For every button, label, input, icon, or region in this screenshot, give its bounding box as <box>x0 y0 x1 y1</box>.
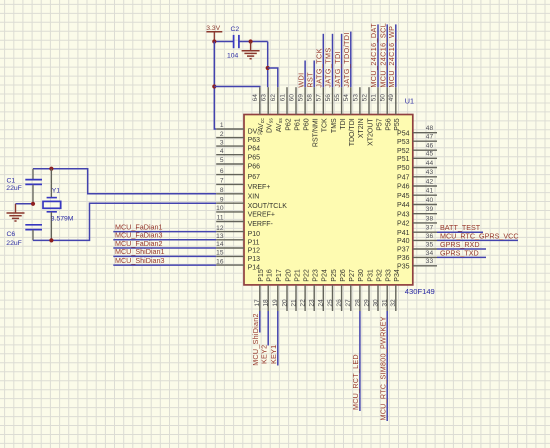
svg-text:63: 63 <box>261 94 268 102</box>
U1 pin 23 (P23) with number <box>309 269 320 311</box>
wire net MCU_ShiDian2 on pin 17 <box>259 311 261 333</box>
capacitor C6 <box>6 225 42 247</box>
U1 pin 59 (P60) with number <box>298 87 311 131</box>
svg-text:P51: P51 <box>397 156 410 163</box>
U1 pin 38 (P42) with number <box>397 215 437 227</box>
junction node B at crystal bottom <box>49 238 53 242</box>
svg-text:31: 31 <box>382 299 389 307</box>
svg-text:8: 8 <box>220 187 224 194</box>
svg-text:42: 42 <box>426 178 434 185</box>
svg-text:2: 2 <box>220 131 224 138</box>
svg-text:P65: P65 <box>248 154 261 161</box>
svg-text:62: 62 <box>270 94 277 102</box>
wire net GPRS_RXD on pin 35 <box>437 248 486 250</box>
wire net MCU_RTC_GPRS_VCC on pin 36 <box>437 239 518 241</box>
U1 pin 35 (P37) with number <box>397 241 437 253</box>
svg-text:AVss: AVss <box>276 118 284 132</box>
svg-text:10: 10 <box>216 205 224 212</box>
junction on DVss wire <box>266 66 270 70</box>
wire net MCU_FaDian3 to pin <box>113 239 216 241</box>
power symbol 3.3V <box>206 25 222 41</box>
svg-text:36: 36 <box>426 233 434 240</box>
svg-text:P10: P10 <box>248 231 261 238</box>
svg-text:P44: P44 <box>397 202 410 209</box>
svg-text:XIN: XIN <box>248 193 260 200</box>
junction at C2/ground node <box>249 39 253 43</box>
svg-text:P32: P32 <box>376 269 383 282</box>
U1 pin 25 (P25) with number <box>327 269 338 311</box>
U1 pin 36 (P40) with number <box>397 233 437 245</box>
svg-text:P56: P56 <box>386 118 393 131</box>
U1 pin 26 (P26) with number <box>336 269 347 311</box>
U1 pin 28 (P30) with number <box>354 269 365 311</box>
svg-text:P11: P11 <box>248 239 260 246</box>
wire net GPRS_TXD on pin 34 <box>437 256 486 258</box>
U1 pin 46 (P52) with number <box>397 143 437 155</box>
svg-text:P12: P12 <box>248 248 261 255</box>
svg-text:P46: P46 <box>397 184 410 191</box>
U1 pin 1 (DVcc) with number <box>216 122 263 136</box>
svg-text:XT2OUT: XT2OUT <box>367 118 374 146</box>
svg-text:61: 61 <box>279 94 286 102</box>
wire net MCU_24C16_SCL on pin 50 <box>386 24 388 87</box>
wire net MCU_ShiDian1 to pin <box>113 255 216 257</box>
svg-text:26: 26 <box>336 299 343 307</box>
U1 pin 62 (AVss) with number <box>270 87 284 132</box>
svg-text:MCU_ShiDian3: MCU_ShiDian3 <box>115 256 165 265</box>
wire branch to pin 62 AVss <box>268 68 278 87</box>
svg-text:P66: P66 <box>248 164 261 171</box>
U1 pin 7 (VREF+) with number <box>216 178 270 191</box>
svg-text:XOUT/TCLK: XOUT/TCLK <box>248 203 288 210</box>
U1 pin 21 (P21) with number <box>290 269 301 311</box>
svg-text:15: 15 <box>216 250 224 257</box>
U1 pin 4 (P65) with number <box>216 148 260 161</box>
svg-text:49: 49 <box>388 94 395 102</box>
svg-text:9: 9 <box>220 196 224 203</box>
wire net JATG_TDI on pin 55 <box>341 34 343 87</box>
U1 pin 18 (P16) with number <box>263 269 274 311</box>
svg-text:MCU_RCT_LED: MCU_RCT_LED <box>351 354 360 410</box>
svg-text:P53: P53 <box>397 139 410 146</box>
svg-text:40: 40 <box>426 197 434 204</box>
svg-text:C1: C1 <box>7 177 16 184</box>
svg-text:MCU_24C16_WP: MCU_24C16_WP <box>387 26 396 88</box>
U1 pin 16 (P14) with number <box>216 258 260 271</box>
svg-text:P17: P17 <box>276 269 283 282</box>
svg-text:57: 57 <box>316 94 323 102</box>
wire net MCU_FaDian2 to pin <box>113 247 216 249</box>
svg-text:32: 32 <box>390 299 397 307</box>
svg-text:TDI: TDI <box>340 118 347 129</box>
junction node A at crystal top <box>49 167 53 171</box>
svg-text:41: 41 <box>426 188 434 195</box>
junction at 3.3V rail <box>212 39 216 43</box>
U1 pin 57 (TCK) with number <box>316 87 329 132</box>
svg-text:TMS: TMS <box>331 118 338 133</box>
svg-text:P61: P61 <box>294 118 301 131</box>
svg-text:P34: P34 <box>394 269 401 282</box>
wire net MCU_RTC_SIM800_PWRKEY on pin 31 <box>386 311 388 421</box>
svg-text:GPRS_TXD: GPRS_TXD <box>440 248 479 257</box>
wire net MCU_24C16_DAT on pin 51 <box>377 24 379 87</box>
U1 pin 43 (P47) with number <box>397 169 437 181</box>
svg-text:P52: P52 <box>397 148 410 155</box>
svg-text:5: 5 <box>220 157 224 164</box>
svg-text:P33: P33 <box>386 269 393 282</box>
wire branch to pin 64 AVcc <box>214 86 259 89</box>
svg-text:3.3V: 3.3V <box>206 25 220 32</box>
svg-text:P67: P67 <box>248 174 261 181</box>
U1 pin 52 (XT2OUT) with number <box>361 87 374 146</box>
svg-text:P45: P45 <box>397 193 410 200</box>
svg-text:27: 27 <box>345 299 352 307</box>
U1 pin 10 (VEREF+) with number <box>216 205 275 218</box>
svg-text:MCU_24C16_DAT: MCU_24C16_DAT <box>369 23 378 88</box>
svg-text:MCU_RTC_SIM800_PWRKEY: MCU_RTC_SIM800_PWRKEY <box>378 316 387 420</box>
svg-text:TCK: TCK <box>322 118 329 132</box>
U1 pin 3 (P64) with number <box>216 139 260 152</box>
svg-text:54: 54 <box>343 94 350 102</box>
U1 pin 31 (P33) with number <box>382 269 393 311</box>
ground symbol at C2 <box>242 42 260 59</box>
svg-text:43: 43 <box>426 169 434 176</box>
svg-text:C2: C2 <box>231 26 240 33</box>
U1 pin 5 (P66) with number <box>216 157 260 170</box>
wire net WDI on pin 59 <box>304 61 306 88</box>
wire to left ground <box>16 203 34 205</box>
svg-text:48: 48 <box>426 125 434 132</box>
svg-text:55: 55 <box>334 94 341 102</box>
wire node A: C1/Y1 top to XIN pin 8 <box>33 169 216 194</box>
svg-text:P25: P25 <box>331 269 338 282</box>
svg-text:22: 22 <box>300 299 307 307</box>
U1 pin 27 (P27) with number <box>345 269 356 311</box>
svg-text:45: 45 <box>426 151 434 158</box>
svg-text:P26: P26 <box>340 269 347 282</box>
svg-text:P23: P23 <box>313 269 320 282</box>
svg-text:3.579M: 3.579M <box>51 216 74 223</box>
svg-text:16: 16 <box>216 258 224 265</box>
svg-text:P50: P50 <box>397 165 410 172</box>
svg-text:P30: P30 <box>358 269 365 282</box>
svg-text:22uF: 22uF <box>6 240 21 247</box>
svg-text:104: 104 <box>227 53 239 60</box>
U1 pin 61 (P62) with number <box>279 87 292 131</box>
wire ground node down to pin 63 DVss <box>267 42 269 88</box>
svg-text:P36: P36 <box>397 255 410 262</box>
U1 pin 39 (P43) with number <box>397 206 437 218</box>
U1 pin 24 (P24) with number <box>318 269 329 311</box>
svg-text:P57: P57 <box>376 118 383 131</box>
U1 pin 19 (P17) with number <box>272 269 283 311</box>
svg-text:P15: P15 <box>258 269 265 282</box>
svg-text:35: 35 <box>426 241 434 248</box>
U1 pin 58 (RST/NMI) with number <box>307 87 320 147</box>
svg-text:20: 20 <box>281 299 288 307</box>
svg-text:52: 52 <box>361 94 368 102</box>
U1 pin 20 (P20) with number <box>281 269 292 311</box>
U1 pin 53 (XT2IN) with number <box>352 87 365 138</box>
svg-text:430F149: 430F149 <box>405 287 435 296</box>
svg-text:53: 53 <box>352 94 359 102</box>
svg-text:JATG_TCK: JATG_TCK <box>315 48 324 87</box>
U1 pin 47 (P53) with number <box>397 134 437 146</box>
U1 pin 17 (P15) with number <box>254 269 265 311</box>
svg-text:47: 47 <box>426 134 434 141</box>
svg-text:34: 34 <box>426 250 434 257</box>
svg-text:KEY1: KEY1 <box>269 345 278 364</box>
wire net KEY2 on pin 18 <box>267 311 269 346</box>
svg-text:AVcc: AVcc <box>258 118 266 132</box>
svg-text:37: 37 <box>426 225 434 232</box>
svg-text:19: 19 <box>272 299 279 307</box>
capacitor C1 <box>6 169 42 204</box>
svg-text:XT2IN: XT2IN <box>358 118 365 138</box>
wire net BATT_TEST on pin 37 <box>437 231 483 233</box>
crystal Y1 <box>43 169 74 241</box>
svg-text:18: 18 <box>263 299 270 307</box>
svg-text:28: 28 <box>354 299 361 307</box>
U1 pin 55 (TDI) with number <box>334 87 347 129</box>
svg-text:13: 13 <box>216 233 224 240</box>
svg-text:P27: P27 <box>349 269 356 282</box>
U1 pin 14 (P12) with number <box>216 241 260 254</box>
U1 pin 44 (P50) with number <box>397 160 437 172</box>
U1 pin 22 (P22) with number <box>300 269 311 311</box>
svg-text:P62: P62 <box>285 118 292 131</box>
svg-text:P37: P37 <box>397 247 410 254</box>
svg-text:59: 59 <box>298 94 305 102</box>
U1 pin 34 (P36) with number <box>397 250 437 262</box>
U1 pin 50 (P56) with number <box>380 87 393 131</box>
svg-text:7: 7 <box>220 178 224 185</box>
svg-text:P16: P16 <box>267 269 274 282</box>
U1 pin 40 (P44) with number <box>397 197 437 209</box>
U1 pin 64 (AVcc) with number <box>252 87 266 132</box>
wire net JATG_TCK on pin 57 <box>322 34 324 87</box>
svg-text:P63: P63 <box>248 137 261 144</box>
wire net MCU_24C16_WP on pin 49 <box>395 24 397 87</box>
svg-text:24: 24 <box>318 299 325 307</box>
svg-text:JATG_TMS: JATG_TMS <box>324 47 333 87</box>
U1 pin 29 (P31) with number <box>363 269 374 311</box>
svg-text:14: 14 <box>216 241 224 248</box>
svg-text:58: 58 <box>307 94 314 102</box>
svg-text:6: 6 <box>220 168 224 175</box>
ground symbol left <box>7 204 25 221</box>
svg-text:P24: P24 <box>322 269 329 282</box>
junction on 3.3V vertical <box>212 84 216 88</box>
U1 pin 15 (P13) with number <box>216 250 260 263</box>
svg-text:U1: U1 <box>405 96 414 105</box>
svg-text:P22: P22 <box>303 269 310 282</box>
svg-text:TDO/TDI: TDO/TDI <box>349 118 356 146</box>
svg-text:P64: P64 <box>248 146 261 153</box>
svg-text:P20: P20 <box>285 269 292 282</box>
svg-text:29: 29 <box>363 299 370 307</box>
capacitor C2 <box>227 26 239 59</box>
U1 pin 13 (P11) with number <box>216 233 259 246</box>
svg-text:33: 33 <box>426 258 434 265</box>
svg-text:VEREF+: VEREF+ <box>248 212 275 219</box>
svg-text:P60: P60 <box>303 118 310 131</box>
U1 pin 2 (P63) with number <box>216 131 260 144</box>
wire net MCU_FaDian1 to pin <box>113 231 216 233</box>
svg-text:KEY2: KEY2 <box>259 345 268 364</box>
svg-text:4: 4 <box>220 148 224 155</box>
svg-text:17: 17 <box>254 299 261 307</box>
U1 pin 32 (P34) with number <box>390 269 401 311</box>
svg-text:JATG_TDI: JATG_TDI <box>333 51 342 88</box>
svg-text:MCU_ShiDian1: MCU_ShiDian1 <box>115 247 165 256</box>
wire net JATG_TMS on pin 56 <box>332 34 334 87</box>
U1 pin 9 (XOUT/TCLK) with number <box>216 196 287 209</box>
U1 pin 49 (P55) with number <box>388 87 401 131</box>
U1 pin 51 (P57) with number <box>370 87 383 131</box>
svg-text:39: 39 <box>426 206 434 213</box>
svg-text:21: 21 <box>290 299 297 307</box>
U1 pin 48 (P54) with number <box>397 125 437 137</box>
U1 pin 11 (VERFF-) with number <box>216 215 273 228</box>
U1 pin 45 (P51) with number <box>397 151 437 163</box>
U1 pin 8 (XIN) with number <box>216 187 259 200</box>
svg-text:56: 56 <box>325 94 332 102</box>
svg-text:P55: P55 <box>394 118 401 131</box>
wire C2 right plate to ground node <box>239 41 268 43</box>
svg-text:RST/NMI: RST/NMI <box>313 118 320 147</box>
svg-text:11: 11 <box>217 215 224 222</box>
U1 pin 63 (DVss) with number <box>261 87 275 133</box>
U1 pin 42 (P46) with number <box>397 178 437 190</box>
svg-text:WDI: WDI <box>296 72 305 87</box>
U1 pin 30 (P32) with number <box>372 269 383 311</box>
svg-text:P31: P31 <box>367 269 374 282</box>
svg-text:44: 44 <box>426 160 434 167</box>
svg-text:38: 38 <box>426 215 434 222</box>
wire net MCU_ShiDian3 to pin <box>113 264 216 266</box>
junction at C1/C6/ground node <box>31 202 35 206</box>
svg-text:50: 50 <box>380 94 387 102</box>
wire net JATG_TDO/TDI on pin 54 <box>350 32 352 88</box>
svg-text:P40: P40 <box>397 238 410 245</box>
svg-text:VERFF-: VERFF- <box>248 221 274 228</box>
U1 pin 41 (P45) with number <box>397 188 437 200</box>
svg-text:3: 3 <box>220 139 224 146</box>
svg-text:P21: P21 <box>294 269 301 282</box>
wire node B: C6/Y1 bottom to XOUT pin 9 <box>33 203 216 240</box>
svg-text:P42: P42 <box>397 221 410 228</box>
svg-text:P47: P47 <box>397 174 410 181</box>
svg-text:64: 64 <box>252 94 259 102</box>
svg-text:1: 1 <box>220 122 224 129</box>
wire 3.3V rail to C2 left plate <box>214 41 233 43</box>
U1 pin 37 (P41) with number <box>397 225 437 237</box>
wire 3.3V down-left vertical to pin 1 DVcc <box>214 42 216 130</box>
svg-text:RST: RST <box>305 72 314 88</box>
svg-text:22uF: 22uF <box>6 185 21 192</box>
svg-text:46: 46 <box>426 143 434 150</box>
svg-text:P43: P43 <box>397 211 410 218</box>
svg-text:C6: C6 <box>7 231 16 238</box>
wire net KEY1 on pin 19 <box>277 311 279 366</box>
svg-text:VREF+: VREF+ <box>248 184 271 191</box>
svg-text:60: 60 <box>288 94 295 102</box>
svg-text:P41: P41 <box>397 230 410 237</box>
U1 pin 60 (P61) with number <box>288 87 301 131</box>
svg-text:12: 12 <box>216 225 224 232</box>
svg-text:30: 30 <box>372 299 379 307</box>
U1 pin 6 (P67) with number <box>216 168 260 181</box>
svg-text:P13: P13 <box>248 256 261 263</box>
svg-text:23: 23 <box>309 299 316 307</box>
U1 pin 12 (P10) with number <box>216 225 260 238</box>
U1 pin 33 (P35) with number <box>397 258 437 270</box>
svg-text:51: 51 <box>370 94 377 102</box>
MCU U1 body 430F149 <box>244 115 413 285</box>
wire net MCU_RCT_LED on pin 28 <box>359 311 361 411</box>
svg-text:DVss: DVss <box>267 118 275 133</box>
U1 pin 56 (TMS) with number <box>325 87 338 133</box>
svg-text:JATG_TDO/TDI: JATG_TDO/TDI <box>342 32 351 87</box>
svg-text:Y1: Y1 <box>52 188 61 195</box>
svg-text:25: 25 <box>327 299 334 307</box>
wire net RST on pin 58 <box>313 61 315 88</box>
U1 pin 54 (TDO/TDI) with number <box>343 87 356 146</box>
